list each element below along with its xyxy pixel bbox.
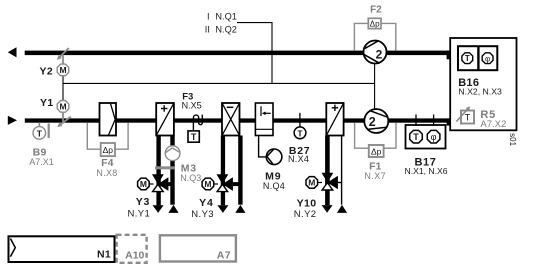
svg-text:M: M (140, 179, 147, 189)
reheat coil (326, 103, 343, 136)
damper Y1 blade (62, 113, 64, 123)
pump M3 (165, 146, 180, 161)
filter F4 bracket (87, 123, 128, 149)
actuator M Y3 (138, 178, 150, 190)
svg-text:N.Q3: N.Q3 (180, 173, 201, 183)
svg-text:N.Y3: N.Y3 (191, 209, 214, 220)
room unit box B16/R5 (450, 38, 516, 130)
fan 2 (supply) (364, 109, 388, 133)
actuator M Y10 (306, 177, 318, 189)
dp sensor F4 (101, 143, 115, 156)
svg-text:M: M (204, 179, 211, 189)
sensor B17 stems (415, 115, 417, 131)
svg-text:Δp: Δp (103, 145, 114, 155)
svg-text:2: 2 (376, 47, 383, 61)
device A10 box (dashed) (117, 235, 147, 263)
pump M9 (266, 149, 282, 165)
svg-text:Δp: Δp (371, 146, 382, 156)
svg-text:N.X4: N.X4 (288, 154, 309, 164)
setpoint adjuster R5 (461, 111, 474, 124)
wire: fan/damper speed control line (63, 82, 375, 84)
sensor B9 outside temp (38, 123, 40, 127)
svg-text:Y10: Y10 (297, 197, 317, 209)
filter body (100, 103, 117, 136)
valve Y4 (217, 174, 229, 184)
flow arrow up (168, 205, 178, 213)
flow arrow down (322, 205, 333, 213)
sensor B27 supply temp (299, 113, 301, 127)
svg-text:T: T (465, 112, 471, 122)
svg-text:Y4: Y4 (199, 197, 213, 209)
svg-text:N.X2, N.X3: N.X2, N.X3 (458, 86, 502, 96)
svg-text:A7.X1: A7.X1 (29, 157, 54, 167)
pipe: heating coil right pipe (170, 136, 174, 205)
svg-text:2: 2 (369, 115, 376, 129)
svg-text:Y2: Y2 (40, 66, 54, 78)
dp sensor F1 bracket (355, 123, 369, 148)
node: top duct right end tab (447, 51, 451, 60)
svg-text:N1: N1 (97, 248, 111, 260)
actuator M Y4 (202, 178, 214, 190)
svg-text:N.Y2: N.Y2 (294, 209, 317, 220)
svg-text:N.Q2: N.Q2 (215, 24, 236, 34)
wire: fan-to-fan link (374, 64, 376, 109)
svg-text:T: T (37, 129, 43, 139)
svg-text:T: T (297, 128, 303, 138)
pipe: cooling coil right pipe (238, 136, 242, 205)
pipe: cooling coil left pipe (221, 136, 225, 206)
pipe: heating coil left pipe (156, 136, 160, 206)
flow arrow down (217, 205, 228, 213)
svg-text:T: T (191, 132, 197, 142)
wire: damper actuator link Y2-Y1 (62, 76, 64, 100)
flow arrow down (153, 205, 164, 213)
pipe to pump M9 (259, 136, 267, 157)
cooling coil (222, 103, 240, 136)
actuator M Y1 (57, 101, 69, 113)
node: bottom duct right end tab (447, 118, 451, 125)
pipe: reheat right line (341, 136, 343, 205)
svg-text:s01: s01 (508, 133, 517, 146)
svg-text:N.Q1: N.Q1 (215, 12, 236, 22)
svg-text:N.X8: N.X8 (96, 168, 117, 178)
svg-text:N.X7: N.X7 (364, 171, 386, 181)
svg-text:N.X5: N.X5 (182, 101, 202, 111)
dp sensor F2 bracket (354, 23, 368, 50)
svg-text:M: M (59, 65, 66, 75)
svg-text:M: M (308, 178, 315, 188)
heating coil 1 (156, 103, 174, 136)
svg-text:φ: φ (485, 54, 490, 63)
sensor B16 (458, 46, 497, 70)
svg-text:T: T (413, 132, 419, 142)
svg-text:II: II (205, 24, 210, 34)
svg-text:Y3: Y3 (136, 196, 150, 208)
svg-text:M: M (59, 102, 66, 112)
node: bottom duct left arrow (8, 116, 17, 125)
svg-text:N.X1, N.X6: N.X1, N.X6 (405, 166, 448, 176)
svg-text:F4: F4 (101, 157, 113, 169)
controller N1 box (9, 236, 115, 262)
flow arrow up (337, 205, 347, 213)
svg-text:F2: F2 (370, 5, 382, 16)
svg-text:T: T (465, 54, 470, 63)
svg-text:A10: A10 (125, 250, 144, 262)
device A7 box (160, 235, 236, 261)
wire: bottom duct line (supply air) (25, 118, 450, 122)
node: top duct left arrow (8, 47, 17, 57)
pipe: reheat left pipe (325, 136, 330, 206)
svg-text:Y1: Y1 (40, 97, 54, 109)
fan 1 (extract) (364, 41, 387, 64)
svg-text:N.Q4: N.Q4 (263, 181, 285, 191)
sensor B17 box (406, 125, 446, 149)
bypass bar (155, 166, 175, 169)
svg-text:Δp: Δp (370, 19, 380, 28)
valve Y3 (152, 174, 164, 184)
actuator M Y2 (57, 64, 69, 76)
svg-text:I: I (207, 12, 210, 22)
svg-text:N.Y1: N.Y1 (127, 209, 150, 220)
flow arrow up (235, 205, 245, 213)
svg-text:A7.X2: A7.X2 (480, 119, 506, 130)
dp sensor F1 (369, 145, 384, 157)
dp sensor F2 (368, 18, 381, 28)
humidifier washer (255, 103, 273, 136)
svg-text:φ: φ (431, 132, 437, 142)
valve Y10 (322, 173, 334, 183)
damper Y2 blade (58, 48, 69, 59)
wire: speed label drop line (237, 23, 272, 84)
svg-text:A7: A7 (217, 249, 231, 261)
wire: top duct line (extract air) (25, 51, 451, 56)
